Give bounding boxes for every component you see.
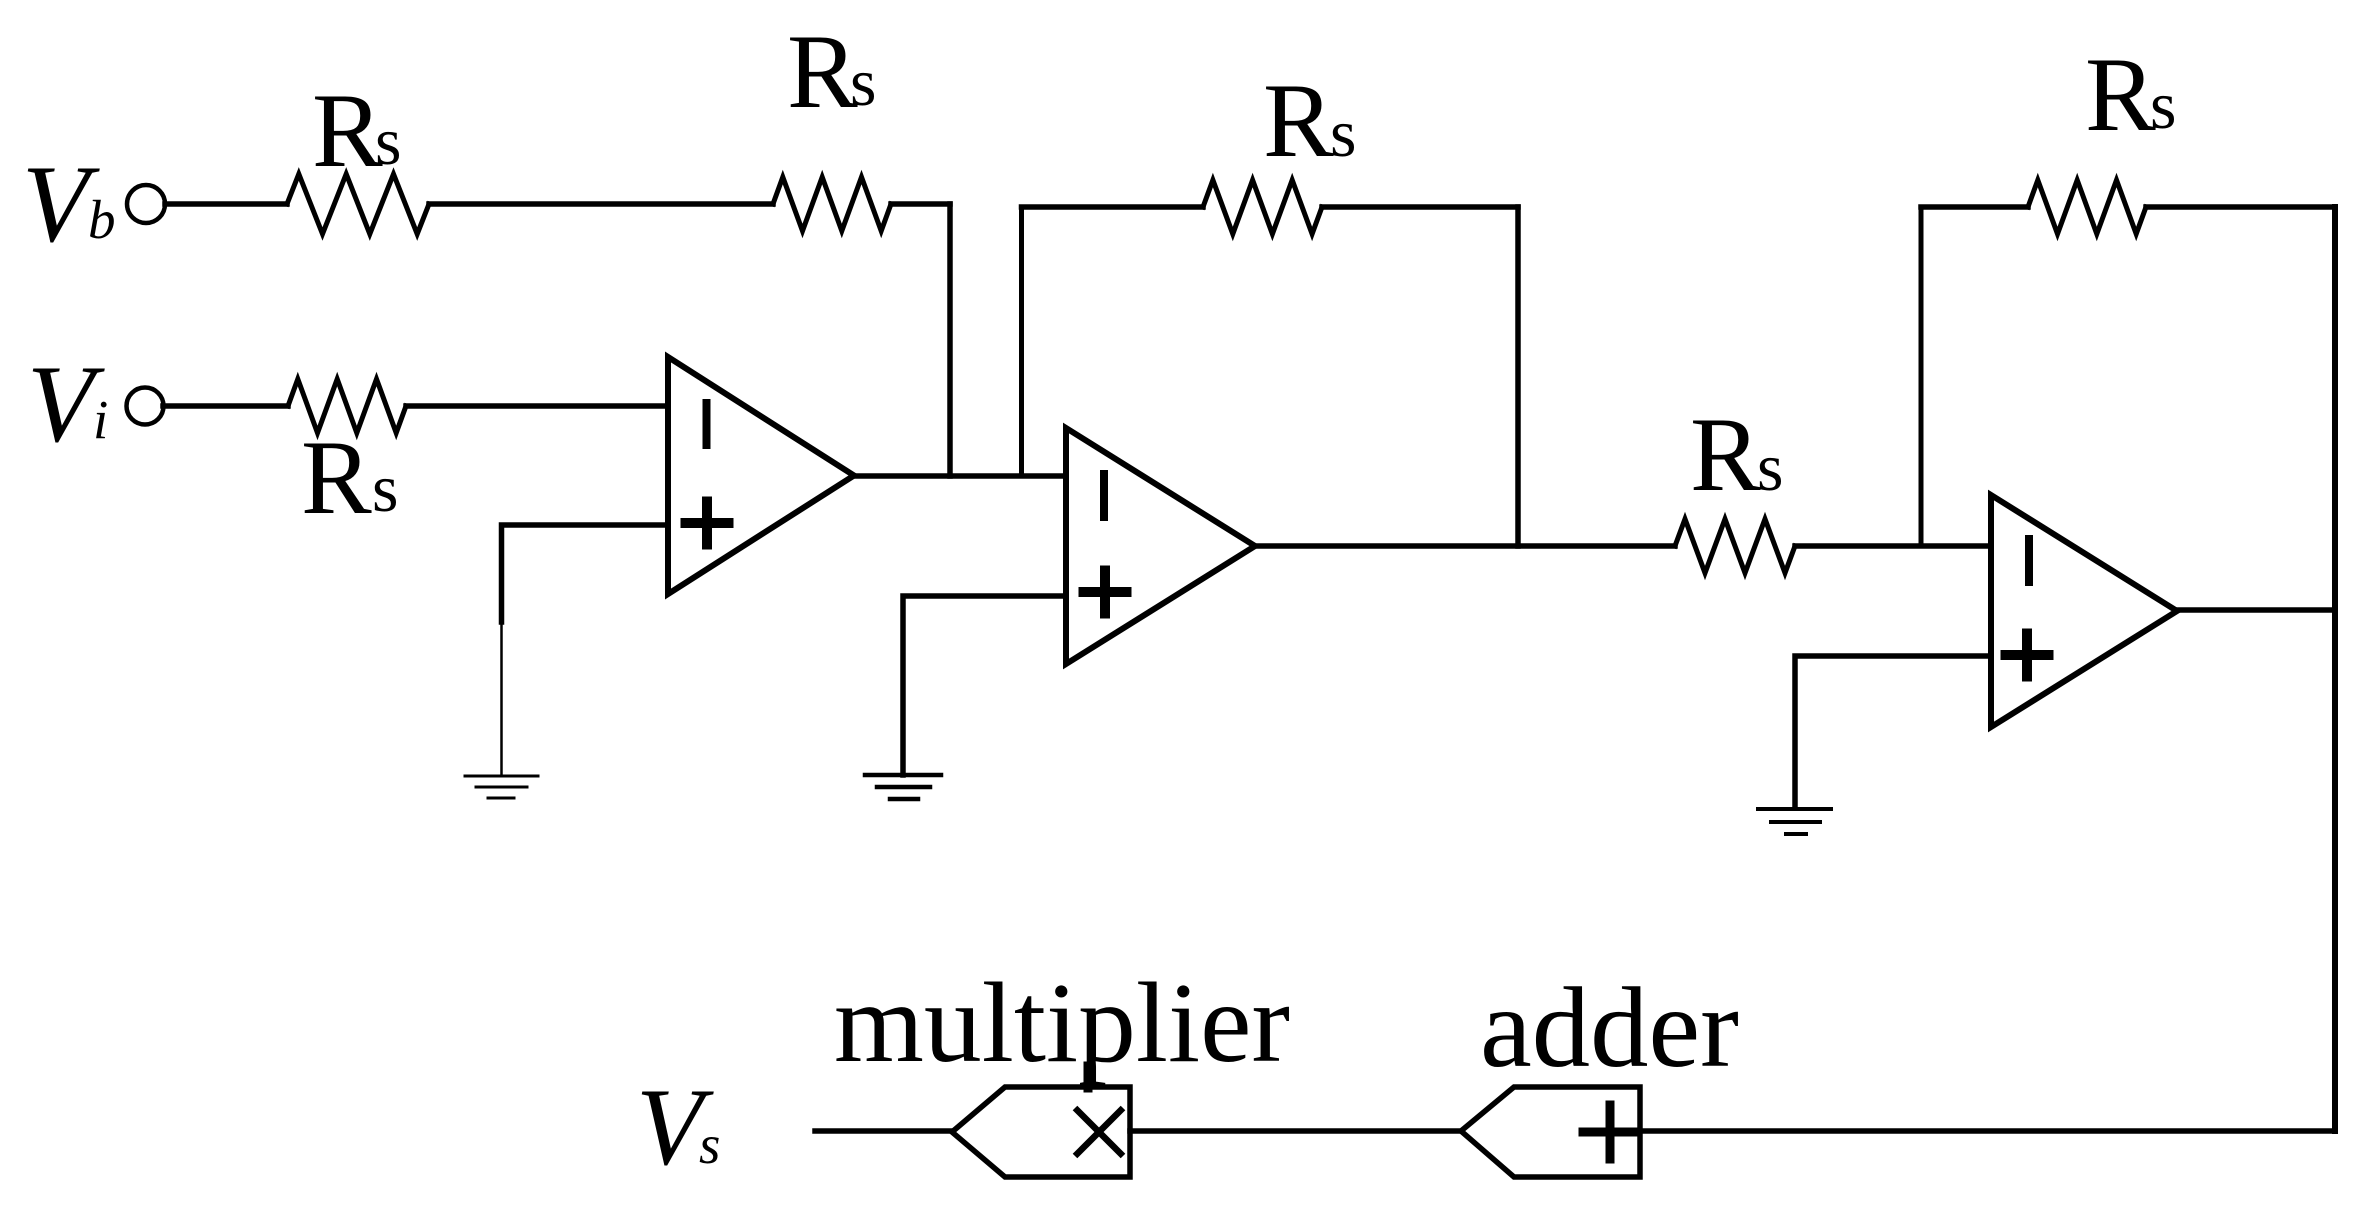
svg-text:R: R: [1690, 396, 1761, 513]
adder A1: [1461, 1087, 1640, 1177]
ground: [1758, 809, 1831, 834]
wire: [1130, 1128, 1461, 1134]
wire: [1322, 204, 1518, 210]
wire: [891, 201, 950, 207]
wire: [2146, 204, 2335, 210]
wire: [1795, 543, 1991, 549]
pin minus U1: [703, 403, 711, 445]
ground: [465, 776, 538, 798]
node Vs label: [636, 1066, 720, 1188]
pin minus U3: [2025, 539, 2033, 582]
wire: [1022, 204, 1204, 210]
value label Rs: [1263, 62, 1356, 179]
svg-text:adder: adder: [1480, 964, 1739, 1091]
wire: [406, 403, 668, 409]
resistor Rs (U2-U3 series): [1675, 519, 1795, 573]
node Vi label: [27, 343, 108, 465]
wire: [1255, 543, 1675, 549]
wire label leader: [1084, 1066, 1093, 1088]
svg-text:s: s: [1330, 95, 1356, 171]
resistor Rs (Vi input): [288, 379, 406, 433]
wire: [1921, 204, 2028, 210]
wire: [1515, 207, 1521, 546]
svg-text:s: s: [375, 103, 401, 179]
resistor Rs (Vb second): [773, 177, 891, 231]
label adder: [1480, 964, 1739, 1091]
pin plus U2: [1084, 571, 1127, 614]
op-amp U1: [668, 357, 854, 594]
wire: [1640, 1128, 2335, 1134]
svg-text:b: b: [88, 189, 116, 250]
wire: [1019, 207, 1024, 476]
value label Rs: [787, 13, 876, 130]
wire: [815, 1128, 952, 1134]
terminal Vb: [127, 185, 165, 223]
svg-text:R: R: [787, 13, 858, 130]
value label Rs: [1690, 396, 1783, 513]
svg-text:R: R: [2085, 36, 2156, 153]
wire: [854, 473, 1066, 479]
ground: [865, 775, 941, 799]
value label Rs: [2085, 36, 2176, 153]
op-amp U2: [1066, 428, 1255, 664]
svg-text:s: s: [699, 1114, 720, 1175]
label multiplier: [834, 959, 1290, 1086]
wire: [903, 596, 1066, 775]
wire: [2332, 207, 2338, 1131]
wire: [165, 201, 287, 207]
resistor Rs (Vb input): [287, 174, 429, 234]
wire: [1795, 656, 1991, 807]
svg-text:s: s: [372, 450, 398, 526]
resistor Rs (U3 feedback): [2028, 180, 2146, 234]
svg-text:s: s: [1757, 429, 1783, 505]
svg-text:multiplier: multiplier: [834, 959, 1290, 1086]
multiply symbol: [1075, 1108, 1123, 1156]
svg-text:i: i: [93, 389, 108, 450]
value label Rs: [301, 419, 398, 536]
wire: [429, 201, 773, 207]
wire: [502, 525, 669, 622]
svg-text:R: R: [312, 72, 383, 189]
resistor Rs (U2 feedback): [1203, 180, 1322, 234]
wire: [500, 622, 503, 776]
pin minus U2: [1100, 474, 1108, 517]
pin plus U3: [2006, 634, 2049, 677]
terminal Vi: [127, 388, 164, 425]
value label Rs: [312, 72, 401, 189]
svg-text:R: R: [301, 419, 372, 536]
svg-text:s: s: [850, 44, 876, 120]
pin plus U1: [686, 502, 729, 545]
wire: [1919, 207, 1924, 546]
wire: [947, 204, 953, 476]
plus symbol: [1583, 1105, 1637, 1159]
op-amp U3: [1991, 495, 2177, 727]
svg-text:R: R: [1263, 62, 1334, 179]
wire: [163, 403, 288, 409]
wire: [2177, 607, 2335, 613]
node Vb label: [22, 143, 116, 265]
multiplier M1: [952, 1087, 1130, 1177]
svg-text:s: s: [2150, 67, 2176, 143]
